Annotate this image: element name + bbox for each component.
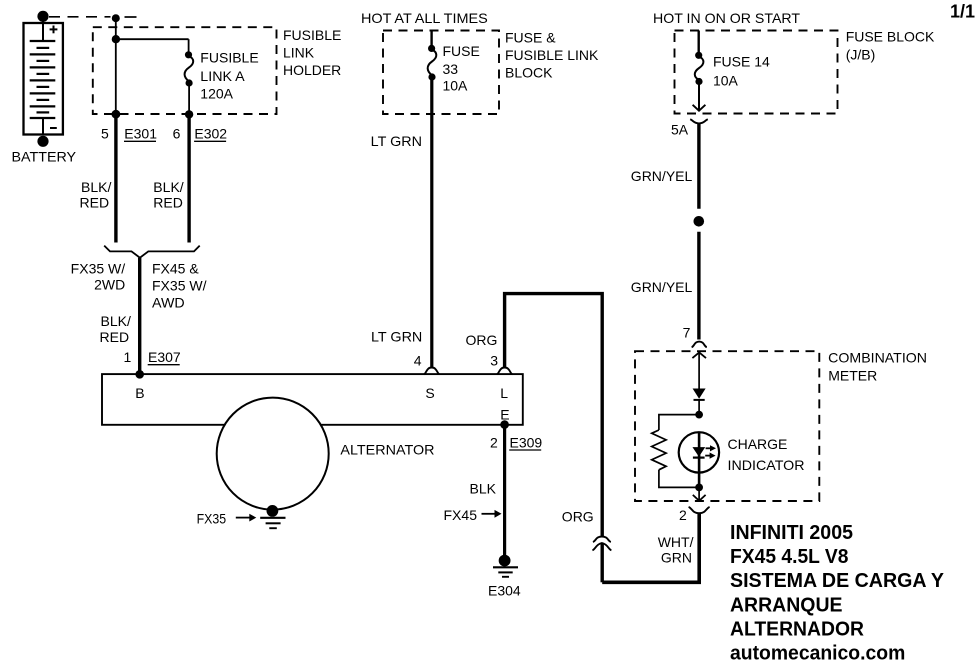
wire fuse 14 top lead [698, 31, 700, 55]
node ground terminal E304 [499, 555, 511, 567]
wire through lamp [698, 432, 701, 487]
fuse 33 10A [428, 45, 437, 81]
wire bottom node to pin 2 [698, 487, 700, 499]
svg-text:E304: E304 [488, 582, 521, 598]
ground FX35 alternator case [260, 518, 285, 528]
svg-text:6: 6 [173, 126, 181, 142]
brace wire merge [104, 246, 200, 258]
svg-text:E: E [500, 407, 509, 423]
svg-text:2: 2 [679, 507, 687, 523]
label CHARGE INDICATOR [728, 436, 805, 473]
node meter branch top [695, 411, 703, 419]
label FUSE 14 10A [713, 53, 770, 88]
node pin E E309 [500, 420, 509, 429]
svg-text:LINK A: LINK A [200, 68, 245, 84]
svg-text:COMBINATION: COMBINATION [828, 350, 927, 366]
svg-text:FUSE &: FUSE & [505, 29, 556, 45]
svg-text:FUSE 14: FUSE 14 [713, 53, 770, 69]
svg-text:METER: METER [828, 367, 877, 383]
label E301 [124, 126, 157, 142]
svg-text:AWD: AWD [152, 294, 185, 310]
fuse and fusible link block box (dashed) [383, 31, 499, 115]
wire pin 7 to diode [698, 353, 700, 389]
node alternator case ground [267, 505, 279, 517]
resistor R1 [652, 430, 666, 470]
combination meter box (dashed) [635, 351, 819, 501]
svg-text:HOT IN ON OR START: HOT IN ON OR START [653, 10, 800, 26]
label WHT/GRN [658, 534, 694, 565]
label BLK/RED (merged wire) [100, 313, 132, 345]
svg-text:BLK/: BLK/ [153, 179, 184, 195]
svg-text:FX35 W/: FX35 W/ [71, 260, 126, 276]
label FUSE &amp; FUSIBLE LINK BLOCK [505, 29, 599, 80]
svg-text:7: 7 [683, 325, 691, 341]
connector pin 3 female cup [497, 368, 513, 375]
svg-text:ORG: ORG [466, 332, 498, 348]
svg-text:E302: E302 [194, 126, 227, 142]
svg-text:RED: RED [80, 195, 110, 211]
fuse 14 10A [695, 52, 704, 85]
svg-text:FUSIBLE LINK: FUSIBLE LINK [505, 47, 599, 63]
inline connector ORG male arrow [592, 543, 611, 550]
fusible link A 120A [185, 51, 194, 86]
svg-text:WHT/: WHT/ [658, 534, 694, 550]
label FX35 W/ 2WD [71, 260, 126, 292]
wire BLK/RED from E302 [187, 114, 190, 243]
svg-text:LT GRN: LT GRN [371, 133, 422, 149]
wire branch to fusible link A [116, 38, 189, 40]
svg-text:INFINITI 2005: INFINITI 2005 [730, 522, 853, 544]
node meter branch bottom [695, 484, 703, 492]
label FUSIBLE LINK A 120A [200, 50, 258, 102]
svg-text:HOLDER: HOLDER [283, 62, 341, 78]
wire ORG from pin L up and over [505, 294, 603, 536]
svg-text:B: B [135, 385, 144, 401]
svg-text:SISTEMA DE CARGA Y: SISTEMA DE CARGA Y [730, 570, 945, 592]
svg-text:ALTERNATOR: ALTERNATOR [340, 442, 434, 458]
svg-text:1: 1 [124, 349, 132, 365]
wire ORG below inline connector [601, 544, 604, 583]
fusible link holder box (dashed) [93, 27, 277, 114]
battery negative terminal [37, 136, 48, 147]
wire fusible link A to pin 6 [188, 84, 190, 114]
svg-text:E307: E307 [148, 349, 181, 365]
wire battery to feed node (dashed) [49, 16, 111, 18]
svg-text:10A: 10A [443, 77, 469, 93]
svg-text:S: S [425, 385, 434, 401]
wire diode to branch node [698, 400, 700, 415]
svg-text:FX35: FX35 [197, 510, 227, 526]
fuse block J/B box (dashed) [675, 31, 838, 114]
svg-text:CHARGE: CHARGE [728, 436, 788, 452]
svg-text:automecanico.com: automecanico.com [730, 643, 905, 665]
wire resistor to bottom node [659, 470, 699, 488]
svg-text:4: 4 [414, 353, 422, 369]
svg-text:BLK/: BLK/ [81, 179, 112, 195]
svg-text:FUSIBLE: FUSIBLE [200, 50, 258, 66]
LED symbol in charge indicator [693, 445, 716, 459]
node pin 6 E302 [185, 110, 193, 118]
wire fuse 14 to connector arrow [698, 83, 700, 110]
label FX45 with arrow [444, 507, 502, 523]
svg-text:FX45: FX45 [444, 507, 478, 523]
label COMBINATION METER [828, 350, 927, 384]
node GRN/YEL splice [694, 216, 705, 227]
svg-text:E301: E301 [124, 126, 157, 142]
svg-text:RED: RED [100, 329, 130, 345]
label FUSIBLE LINK HOLDER [283, 27, 341, 78]
wire dash right of node [125, 16, 137, 18]
label E302 [194, 126, 227, 142]
title block [730, 522, 945, 665]
svg-text:FX45 &: FX45 & [152, 260, 199, 276]
svg-text:(J/B): (J/B) [846, 46, 876, 62]
svg-text:LT GRN: LT GRN [371, 329, 422, 345]
charge indicator lamp circle [679, 432, 719, 472]
svg-text:L: L [500, 385, 508, 401]
wire feed down to pin 5 [115, 18, 117, 114]
alternator box U1 [102, 374, 523, 425]
connector pin 2 female cup [689, 507, 710, 513]
connector pin 2 male arrow [693, 495, 706, 501]
svg-text:FUSE: FUSE [443, 43, 480, 59]
node pin B [135, 370, 144, 379]
svg-text:ORG: ORG [562, 508, 594, 524]
svg-text:INDICATOR: INDICATOR [728, 457, 805, 473]
svg-text:120A: 120A [200, 86, 233, 102]
svg-text:ALTERNADOR: ALTERNADOR [730, 618, 865, 640]
svg-text:1/1: 1/1 [950, 2, 975, 22]
svg-text:FX45 4.5L V8: FX45 4.5L V8 [730, 546, 849, 568]
wire BLK/RED merged to alternator pin B [138, 258, 141, 375]
svg-text:BATTERY: BATTERY [12, 148, 77, 164]
node pin 5 E301 [112, 110, 121, 119]
svg-text:3: 3 [490, 353, 498, 369]
label BLK/RED (right wire) [153, 179, 184, 211]
svg-text:FUSIBLE: FUSIBLE [283, 27, 341, 43]
alternator rotor circle [217, 398, 329, 510]
battery positive terminal [37, 11, 48, 22]
label FX35 with arrow [197, 510, 257, 526]
wire WHT/GRN to ORG junction [602, 513, 699, 582]
wire GRN/YEL upper segment [697, 124, 700, 209]
svg-text:BLK: BLK [470, 480, 497, 496]
label FUSE BLOCK (J/B) [846, 28, 935, 62]
node fusible link branch [112, 35, 120, 43]
svg-text:BLOCK: BLOCK [505, 65, 553, 81]
svg-text:10A: 10A [713, 72, 739, 88]
connector pin 7 male arrow [692, 352, 706, 358]
label E309 [509, 434, 542, 450]
svg-text:GRN: GRN [661, 549, 692, 565]
svg-text:GRN/YEL: GRN/YEL [631, 279, 693, 295]
label E307 [148, 349, 181, 365]
svg-text:RED: RED [153, 195, 183, 211]
svg-text:5A: 5A [671, 122, 689, 138]
svg-text:FX35 W/: FX35 W/ [152, 277, 207, 293]
connector 5A male arrow [693, 105, 706, 111]
svg-text:HOT AT ALL TIMES: HOT AT ALL TIMES [361, 10, 488, 26]
wire BLK/RED from E301 [114, 114, 117, 243]
node battery feed junction [112, 14, 120, 22]
wire branch to resistor [659, 415, 699, 430]
svg-text:GRN/YEL: GRN/YEL [631, 168, 693, 184]
connector pin 7 female cup [692, 342, 707, 348]
svg-text:E309: E309 [510, 434, 543, 450]
label FX45 &amp; FX35 W/ AWD [152, 260, 207, 310]
wire BLK pin E to ground E304 [503, 425, 506, 556]
svg-text:ARRANQUE: ARRANQUE [730, 594, 843, 616]
svg-text:BLK/: BLK/ [101, 313, 132, 329]
label BLK/RED (left wire) [80, 179, 112, 211]
wire GRN/YEL lower segment [697, 232, 700, 340]
svg-text:5: 5 [101, 126, 109, 142]
label FUSE 33 10A [443, 43, 480, 93]
connector pin 4 female cup [424, 368, 440, 375]
ground E304 [493, 567, 518, 577]
svg-text:LINK: LINK [283, 45, 315, 61]
wire LT GRN fuse 33 to alternator S [430, 78, 433, 367]
svg-text:33: 33 [443, 61, 459, 77]
svg-text:2: 2 [490, 434, 498, 450]
diode D1 [694, 389, 705, 400]
wire fuse 33 top lead [430, 31, 432, 48]
svg-text:2WD: 2WD [94, 276, 125, 292]
connector 5A female cup [690, 119, 708, 123]
svg-text:FUSE BLOCK: FUSE BLOCK [846, 28, 935, 44]
battery BAT1 [24, 17, 63, 135]
inline connector ORG female cup [593, 537, 611, 543]
wire fusible link A top lead [188, 39, 190, 54]
